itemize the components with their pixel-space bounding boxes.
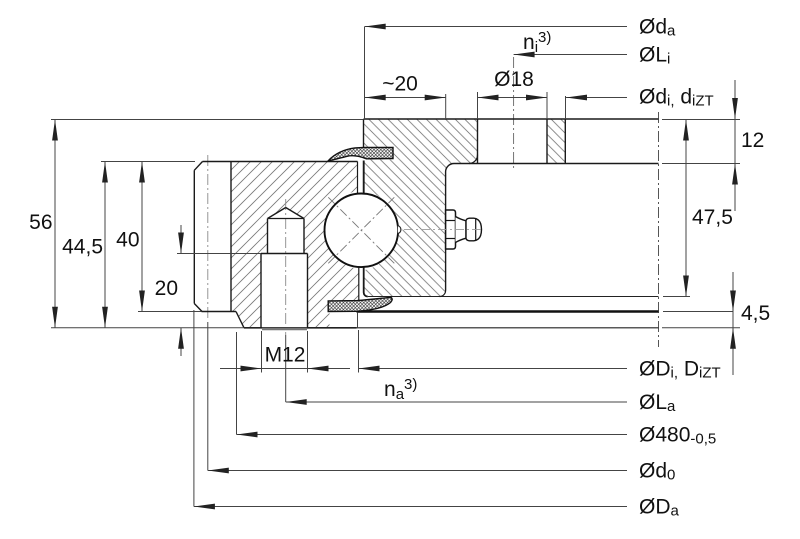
svg-text:12: 12	[741, 129, 764, 152]
svg-text:40: 40	[116, 229, 139, 252]
svg-text:47,5: 47,5	[692, 206, 733, 229]
svg-text:M12: M12	[265, 344, 306, 367]
svg-text:20: 20	[155, 277, 178, 300]
svg-text:4,5: 4,5	[741, 302, 770, 325]
svg-text:~20: ~20	[382, 73, 418, 96]
svg-text:56: 56	[29, 211, 52, 234]
svg-text:44,5: 44,5	[62, 236, 103, 259]
svg-text:Ø18: Ø18	[494, 68, 534, 91]
svg-text:ØLi: ØLi	[639, 43, 670, 67]
